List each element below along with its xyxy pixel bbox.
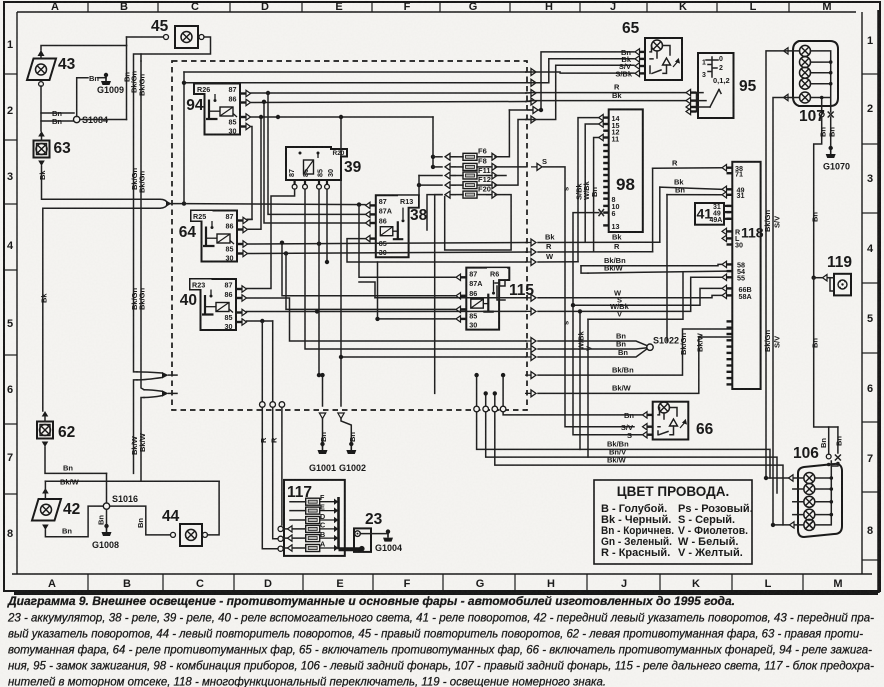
merge connector row5 into dashed box — [134, 372, 178, 474]
wire Bk/W row to pin54 — [588, 271, 727, 273]
wire 44 right up to BkW row — [208, 481, 220, 535]
splice S1084 — [74, 115, 109, 125]
wire 39 pin4 drop to W row — [326, 189, 328, 262]
connector circles G1001 G1002 on dashed bottom — [319, 413, 344, 419]
wire R drop to 117 row B — [273, 407, 277, 539]
wire W row left part — [375, 297, 526, 299]
connector circles R wires on dashed bottom — [260, 402, 285, 408]
wire vertical x588 from V row down — [587, 319, 589, 457]
wire R row 252 — [538, 251, 653, 253]
wire F6 right riser — [495, 110, 509, 157]
wire 43 bottom to Bn row — [41, 86, 74, 113]
wire riser x359 to 115 pin87 — [359, 205, 455, 278]
fuse F20 — [445, 185, 497, 198]
ground G1001 — [309, 442, 336, 473]
106 top pin connectors — [826, 454, 831, 459]
wire bus 94 pin86 — [251, 102, 527, 103]
ground G1008 — [92, 524, 119, 550]
wire dropper R x262 — [261, 321, 263, 406]
lamp 63 right fog lamp — [34, 131, 50, 166]
wire F20 right loop — [445, 195, 511, 250]
wire G1002 — [341, 419, 351, 447]
ground G1009 — [97, 73, 124, 95]
wire top S/V from 107 — [766, 51, 788, 478]
wire circle drops to dashed bottom — [474, 373, 506, 412]
wire Bn rows to S1022 — [538, 331, 647, 357]
wire Bk/W row to 42 top — [45, 480, 219, 482]
wire G1001 hang from BkBn row — [322, 375, 324, 406]
wire 40 pin86 row to Bn row1 — [247, 298, 527, 341]
wire 94 mid pin row — [251, 116, 434, 118]
wire node up to 45 — [126, 37, 128, 46]
wire Bn to S1084 lower — [41, 113, 73, 121]
grid letter strip top — [17, 1, 856, 13]
wire 63 bottom Bk down — [42, 166, 161, 199]
wire row 110 — [509, 109, 541, 111]
wire G1001 — [322, 419, 324, 447]
wire Bn row3 from x341 — [341, 356, 526, 358]
caption text — [7, 594, 874, 687]
wire 64 pin87 to x252 — [248, 218, 253, 220]
wire second Bk/Gn from 107 — [773, 98, 789, 525]
wire 40 pin85 row to R droppers — [247, 320, 273, 322]
grid number strip right — [862, 12, 878, 574]
wire F20 left loop — [427, 195, 442, 230]
wire F11 F12 left from 38 — [419, 185, 442, 195]
multifunction switch 118 — [722, 162, 764, 389]
wire riser x264 to 38 86 — [264, 102, 365, 224]
wire row 110 T riser to Bn 65 pin1 — [541, 52, 634, 110]
wire 43 top to node — [41, 46, 127, 51]
fuse F6 — [445, 147, 497, 161]
wire W row 262 — [538, 261, 578, 263]
wire 39 pin3 drop — [318, 189, 320, 375]
lamp 42 front left turn indicator — [32, 481, 61, 530]
thick wire 117 to 23 — [339, 547, 362, 551]
wire W/Bk row 311.4 — [538, 277, 722, 311]
instrument cluster 98 — [599, 109, 643, 232]
wire 40 pin87 from 39 — [247, 189, 295, 288]
wires 98 pins 14 15 11 loops — [578, 118, 599, 262]
wire 38 pin85 to W exit — [347, 239, 526, 262]
wire riser x377.5 from W row to 115 85 — [378, 262, 456, 319]
wire 45 right to Bk/Gn vertical — [134, 37, 211, 174]
wire V row 319.3 — [588, 273, 683, 319]
wire riser x268 to 38 87A — [268, 93, 365, 214]
wire R row to 95 — [526, 92, 686, 94]
wire x667 riser Bn — [666, 195, 668, 341]
wire Bk/Bn row 449 — [477, 412, 770, 478]
fuse F12 — [445, 175, 497, 188]
wire vertical x580 from WBk row down — [579, 311, 581, 449]
wire riser x286 to 115 86 — [286, 253, 455, 309]
wire Bk row 242 — [538, 241, 660, 243]
wire Bk/Gn second vertical from top — [140, 54, 142, 61]
flasher relay 41 — [695, 203, 730, 225]
wire Bk to 118 pin49 — [660, 187, 722, 189]
wire row3 203.6 to 38 pin87 — [184, 204, 365, 205]
wire 94 pin30 down to 64 — [247, 127, 252, 220]
wire riser x282 to 115 87A — [282, 243, 455, 296]
wire S1084 up to G1009 — [77, 78, 88, 117]
relay 38 — [366, 195, 428, 257]
wire F8 right to S — [495, 166, 526, 168]
wire R drop to 117 row A — [262, 407, 277, 548]
fuse F11 — [445, 166, 497, 179]
wire row 82.8 exit to Bk 65 pin2 — [526, 59, 634, 83]
wire S row 305.2 — [573, 288, 722, 305]
wire row 70.6 exit to S/Bk 65 pin4 — [526, 72, 634, 73]
fog light switch 66 — [643, 402, 689, 440]
wire 23 to G1004 — [360, 533, 388, 535]
wire F11 right stub — [495, 175, 506, 177]
splice S1016 — [103, 494, 138, 509]
relay 115 high beam relay — [456, 268, 534, 330]
battery 23 — [354, 528, 371, 552]
wire 39 pin2 drop to Bn row2 — [305, 189, 526, 349]
ground G1004 — [375, 529, 402, 553]
wire R to 118 pin38 — [653, 167, 722, 170]
wire S1016 from Bn row above — [106, 473, 108, 503]
junction — [266, 91, 270, 95]
fuse box 117 — [278, 480, 345, 556]
wire 62 feed down-left branch — [43, 208, 160, 411]
wire 62 bottom to Bn row — [45, 447, 107, 473]
exit arrows right edge of dashed box — [525, 69, 542, 397]
relay 94 ignition relay — [186, 84, 250, 136]
splice S1022 — [647, 336, 679, 351]
wire F20 left drop — [435, 195, 442, 394]
lamp 43 front right turn indicator — [27, 50, 56, 86]
right tail lamp 107 — [784, 41, 839, 117]
grid number strip left — [4, 12, 17, 574]
repeater lamp 44 — [171, 524, 208, 546]
wire Bk/W row 465 — [495, 412, 783, 525]
wire S1016 down to G1008 — [106, 509, 108, 528]
wire 98 pin6 X drop — [573, 213, 599, 306]
merge connector row6 into dashed box — [141, 390, 177, 482]
wire bus row 94 pin87 — [251, 92, 527, 94]
ignition switch 95 — [686, 53, 734, 118]
wire Bn to 118 pin31 — [667, 194, 722, 196]
wire dropper R x272 — [272, 321, 274, 406]
wire 63 top from Bn node — [40, 121, 42, 131]
fog lamp switch 65 — [635, 38, 682, 80]
wire 40 mid row WBk — [247, 310, 527, 312]
wire Bk/Bn row 375 to 118 — [538, 329, 732, 375]
wire 107 right pin Bn to G1070 — [830, 117, 832, 150]
labels 65 pin wires — [615, 48, 633, 79]
wire Bk/W row 393 to 118 — [538, 337, 732, 393]
node junction into relay box — [182, 201, 186, 205]
ground G1002 — [339, 442, 366, 473]
wire riser x341 from row117 to G1002 — [340, 117, 342, 406]
wire x652.6 riser R — [652, 168, 654, 251]
wire row 119.5 exit to S/V 65 pin3 — [526, 65, 634, 119]
wire drop to 117 row C — [281, 407, 283, 525]
wire node up to bus — [183, 72, 185, 204]
relay 39 — [286, 147, 362, 189]
dashed relay compartment box — [172, 61, 527, 410]
wire 64 pin85 row — [248, 252, 527, 254]
wire S1016 right to 44 — [110, 506, 170, 535]
wire S from F8 down — [543, 167, 634, 427]
wire x659.8 riser Bk — [659, 187, 661, 242]
wire bus row1 y72 — [184, 71, 526, 73]
labels 66 pins — [621, 411, 635, 440]
repeater lamp 45 — [164, 26, 205, 48]
wire Bn to 66 — [503, 412, 642, 415]
wire Bn down to 106 top pins — [814, 278, 829, 454]
wire Bk row to 95 — [526, 100, 686, 103]
wire pair Bk/Gn long verticals mid — [130, 167, 147, 389]
ground G1070 — [823, 146, 850, 172]
lamp 62 left fog lamp — [37, 411, 53, 447]
wire vertical x581 small — [581, 266, 588, 273]
merge connector into dashed box row3 — [160, 199, 184, 208]
grid letter strip bottom — [12, 574, 872, 591]
wire 64 pin mid row — [248, 243, 527, 245]
relay 40 auxiliary light relay — [180, 279, 247, 331]
wire Bk/Bn row to pin58 — [581, 264, 722, 265]
license plate lamp 119 — [823, 274, 852, 296]
relay 64 fog lamp relay — [179, 211, 248, 263]
fuse F8 — [445, 157, 497, 171]
wire vertical x573 from S row to 66 S pin — [573, 305, 643, 435]
wire F6 left junctions — [432, 117, 434, 167]
wire riser x261 64pin86 up to row117 — [248, 117, 262, 229]
wire 42 bottom Bn to S1016 — [45, 506, 103, 537]
wire S1084 right to Bn vertical — [80, 119, 127, 121]
wire bus row 82.8 — [184, 82, 526, 84]
wire Bn/V row 457 — [486, 412, 777, 493]
legend box ЦВЕТ ПРОВОДА — [594, 480, 753, 564]
wire F12 right riser to row 119.5 — [495, 120, 526, 186]
wire vertical Bn x126.5 — [126, 46, 128, 120]
wire W row 297.8 right portion — [538, 295, 722, 297]
wire 107 left pin Bn down to long Bn — [814, 117, 822, 278]
left tail lamp 106 — [789, 461, 843, 537]
wire Bn junction to 119 — [812, 276, 816, 280]
